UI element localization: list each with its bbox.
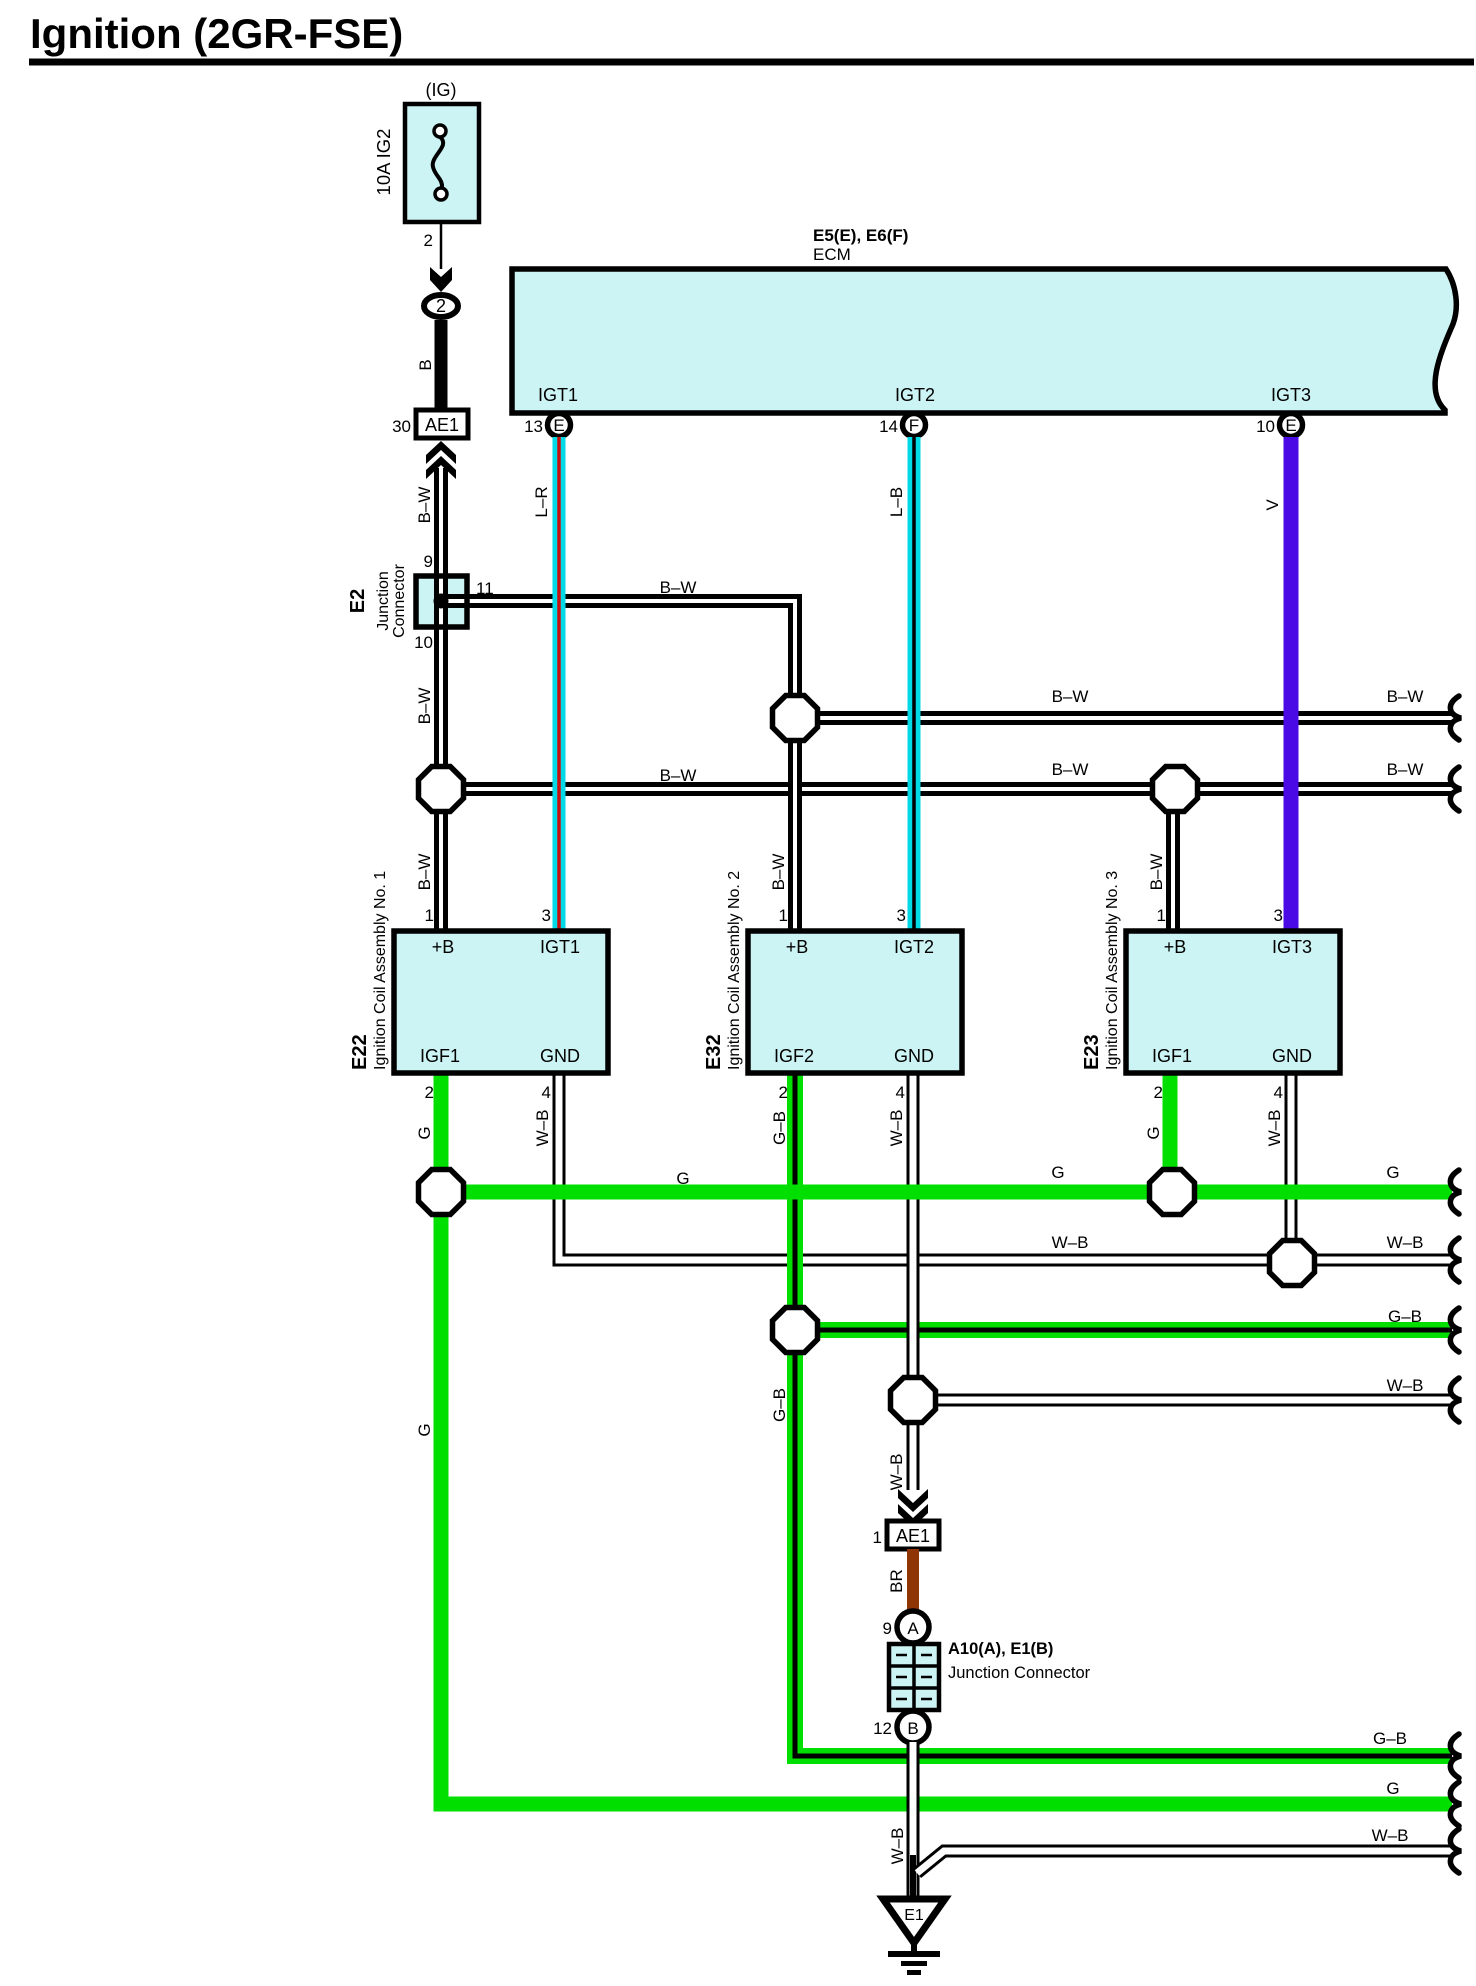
- svg-text:L–R: L–R: [532, 486, 551, 517]
- label W-B: [1387, 1233, 1424, 1252]
- ECM pin label IGT2: [895, 385, 935, 405]
- label B-W: [1147, 854, 1166, 891]
- svg-text:B–W: B–W: [660, 578, 697, 597]
- svg-text:Ignition Coil Assembly No. 1: Ignition Coil Assembly No. 1: [372, 871, 389, 1070]
- wire G horizontal rail y1192: [441, 1185, 1452, 1200]
- pin 1 label: [425, 906, 434, 925]
- junction node octagon (1172,1192): [1150, 1170, 1195, 1215]
- svg-text:G–B: G–B: [770, 1111, 789, 1145]
- label G-B: [770, 1388, 789, 1422]
- label B-W: [415, 487, 434, 524]
- wire B-W from E2 pin 11 right then down to octagon: [465, 601, 795, 700]
- svg-text:GND: GND: [540, 1046, 580, 1066]
- wire end hook: [1450, 1734, 1461, 1778]
- wire W-B from B to ground E1: [907, 1742, 920, 1900]
- svg-text:E2: E2: [347, 589, 369, 613]
- wire B-W horizontal rail y789: [441, 782, 1452, 796]
- svg-text:3: 3: [897, 906, 906, 925]
- wire from fuse to arrow: [440, 222, 443, 269]
- label B-W: [660, 578, 697, 597]
- wire B-W horizontal rail y718: [795, 711, 1452, 725]
- title underline rule: [29, 59, 1474, 66]
- svg-text:11: 11: [476, 579, 494, 598]
- svg-text:10A IG2: 10A IG2: [373, 129, 394, 196]
- svg-text:W–B: W–B: [1387, 1233, 1424, 1252]
- ECM pin 14 (F): [903, 414, 926, 437]
- junction connector E2 box: [416, 576, 467, 627]
- svg-text:+B: +B: [1164, 937, 1187, 957]
- label G: [1051, 1163, 1064, 1182]
- svg-text:L–B: L–B: [887, 487, 906, 517]
- ignition coil assembly E23: [1126, 931, 1340, 1073]
- label Ignition Coil Assembly: [372, 871, 389, 1070]
- svg-text:Ignition (2GR-FSE): Ignition (2GR-FSE): [30, 10, 403, 57]
- wire end hook: [1450, 1238, 1461, 1282]
- svg-text:12: 12: [873, 1719, 892, 1738]
- svg-text:IGT3: IGT3: [1271, 385, 1311, 405]
- pin 4 label: [896, 1083, 905, 1102]
- svg-text:A10(A), E1(B): A10(A), E1(B): [948, 1640, 1053, 1658]
- svg-text:B–W: B–W: [1147, 854, 1166, 891]
- label W-B: [1372, 1826, 1409, 1845]
- wire L-R from ECM IGT1 to coil1: [553, 437, 566, 934]
- svg-text:3: 3: [1274, 906, 1283, 925]
- svg-text:4: 4: [896, 1083, 905, 1102]
- junction node octagon (795,718): [773, 696, 818, 741]
- svg-text:Ignition Coil Assembly No. 3: Ignition Coil Assembly No. 3: [1104, 871, 1121, 1070]
- svg-text:AE1: AE1: [425, 415, 459, 435]
- pin 9 label: [883, 1619, 892, 1638]
- pin 1 label: [873, 1528, 882, 1547]
- label G-B: [1373, 1729, 1407, 1748]
- label G: [415, 1126, 434, 1139]
- svg-text:E23: E23: [1081, 1034, 1103, 1070]
- svg-text:B–W: B–W: [769, 854, 788, 891]
- label B-W: [415, 688, 434, 725]
- wire end hook: [1450, 1829, 1461, 1873]
- svg-text:W–B: W–B: [887, 1454, 906, 1491]
- pin 4 label: [1274, 1083, 1283, 1102]
- fuse 10A IG2: [405, 104, 479, 222]
- pin 10 label: [414, 633, 433, 652]
- ECM pin 13 (E): [548, 414, 571, 437]
- label BR: [887, 1569, 906, 1593]
- wire B-W octagon y789 down to coil3 +B: [1166, 789, 1180, 934]
- label E23: [1081, 1034, 1103, 1070]
- pin 30 label: [392, 417, 411, 436]
- junction node octagon (913,1400): [891, 1378, 936, 1423]
- label L-R: [532, 486, 551, 517]
- svg-text:(IG): (IG): [426, 80, 457, 100]
- label B-W: [769, 854, 788, 891]
- fuse label 10A IG2: [373, 129, 394, 196]
- label G: [415, 1423, 434, 1436]
- junction connector A10(A), E1(B) grid: [889, 1644, 939, 1710]
- svg-text:F: F: [909, 416, 919, 435]
- pin 2 label: [1154, 1083, 1163, 1102]
- svg-text:BR: BR: [887, 1569, 906, 1593]
- chevron arrow into AE1: [426, 441, 456, 479]
- label W-B: [1387, 1376, 1424, 1395]
- svg-text:10: 10: [1256, 417, 1275, 436]
- svg-text:V: V: [1263, 499, 1282, 511]
- ECM label E5(E), E6(F): [813, 226, 908, 245]
- svg-text:14: 14: [879, 417, 898, 436]
- svg-text:G–B: G–B: [1373, 1729, 1407, 1748]
- svg-text:+B: +B: [432, 937, 455, 957]
- svg-text:IGF1: IGF1: [420, 1046, 460, 1066]
- svg-text:E22: E22: [349, 1034, 371, 1070]
- svg-text:IGT3: IGT3: [1272, 937, 1312, 957]
- svg-text:B–W: B–W: [415, 854, 434, 891]
- label W-B: [533, 1110, 552, 1147]
- pin 1 label: [779, 906, 788, 925]
- pin 4 label: [542, 1083, 551, 1102]
- chevron arrow into AE1 bottom: [898, 1489, 928, 1527]
- wire BR: [907, 1549, 919, 1612]
- wire B-W octagon to coil1 +B: [434, 789, 448, 934]
- svg-text:2: 2: [425, 1083, 434, 1102]
- svg-text:+B: +B: [786, 937, 809, 957]
- svg-text:G: G: [1144, 1126, 1163, 1139]
- svg-text:G: G: [676, 1169, 689, 1188]
- ECM label ECM: [813, 245, 851, 264]
- ECM pin label IGT3: [1271, 385, 1311, 405]
- connector oval 2: [424, 295, 458, 317]
- svg-text:10: 10: [414, 633, 433, 652]
- label Ignition Coil Assembly: [726, 871, 743, 1070]
- label E2: [347, 589, 369, 613]
- svg-text:IGF1: IGF1: [1152, 1046, 1192, 1066]
- svg-text:Ignition Coil Assembly No. 2: Ignition Coil Assembly No. 2: [726, 871, 743, 1070]
- label B: [416, 359, 435, 370]
- svg-text:G: G: [1386, 1163, 1399, 1182]
- label G: [1386, 1163, 1399, 1182]
- svg-text:9: 9: [883, 1619, 892, 1638]
- junction node octagon (1175,789): [1153, 767, 1198, 812]
- svg-text:W–B: W–B: [1387, 1376, 1424, 1395]
- wire L-B from ECM IGT2 to coil2: [908, 437, 921, 934]
- svg-text:13: 13: [524, 417, 543, 436]
- wire G from coil3 IGF1 to octagon: [1163, 1071, 1178, 1192]
- connector circle B (pin 12): [897, 1711, 929, 1743]
- svg-text:W–B: W–B: [1265, 1110, 1284, 1147]
- label B-W: [415, 854, 434, 891]
- svg-text:B–W: B–W: [660, 766, 697, 785]
- pin 9 label: [424, 552, 433, 571]
- svg-text:2: 2: [436, 296, 446, 316]
- fuse pin 2 label: [424, 231, 433, 250]
- svg-text:1: 1: [425, 906, 434, 925]
- label G-B: [770, 1111, 789, 1145]
- svg-text:AE1: AE1: [896, 1526, 930, 1546]
- svg-text:B–W: B–W: [415, 688, 434, 725]
- label G: [676, 1169, 689, 1188]
- pin number 10: [1256, 417, 1275, 436]
- pin 1 label: [1157, 906, 1166, 925]
- wire end hook: [1450, 767, 1461, 811]
- label A10(A), E1(B): [948, 1640, 1053, 1658]
- svg-text:3: 3: [542, 906, 551, 925]
- svg-text:4: 4: [542, 1083, 551, 1102]
- svg-text:1: 1: [1157, 906, 1166, 925]
- wire W-B horizontal rail y1400: [913, 1394, 1452, 1407]
- svg-text:A: A: [907, 1619, 919, 1638]
- wire G-B horizontal rail y1330: [795, 1322, 1452, 1338]
- pin 2 label: [425, 1083, 434, 1102]
- svg-text:E1: E1: [904, 1907, 924, 1924]
- wire W-B from coil3 GND down to octagon: [1285, 1071, 1298, 1263]
- junction node octagon (795,1330): [773, 1308, 818, 1353]
- svg-text:G: G: [1051, 1163, 1064, 1182]
- svg-text:B: B: [416, 359, 435, 370]
- svg-text:E5(E), E6(F): E5(E), E6(F): [813, 226, 908, 245]
- svg-text:W–B: W–B: [1372, 1826, 1409, 1845]
- junction node octagon (441,789): [419, 767, 464, 812]
- label Ignition Coil Assembly: [1104, 871, 1121, 1070]
- wire B-W octagon y718 down to coil2 +B: [788, 736, 802, 934]
- label E32: [703, 1034, 725, 1070]
- pin 3 label: [1274, 906, 1283, 925]
- wire G-B from coil2 IGF2 down, elbow right y1754: [795, 1071, 1452, 1756]
- label B-W: [1052, 687, 1089, 706]
- connector AE1 (pin 1): [887, 1521, 939, 1549]
- svg-text:W–B: W–B: [887, 1110, 906, 1147]
- label V: [1263, 499, 1282, 511]
- label G-B: [1388, 1307, 1422, 1326]
- svg-text:Junction: Junction: [375, 571, 392, 631]
- ignition coil assembly E22: [394, 931, 608, 1073]
- wire end hook: [1450, 1782, 1461, 1826]
- ground stem and hatch: [888, 1943, 940, 1973]
- label W-B: [887, 1110, 906, 1147]
- connector circle A (pin 9): [897, 1611, 929, 1643]
- svg-text:G–B: G–B: [770, 1388, 789, 1422]
- label B-W: [1387, 760, 1424, 779]
- label Junction Connector: [948, 1664, 1091, 1682]
- wire W-B from coil1 GND down and right: [559, 1071, 1452, 1260]
- svg-text:G: G: [415, 1126, 434, 1139]
- wire B-W from AE1 chevrons to E2 and through to octagon: [434, 468, 448, 789]
- svg-text:IGT1: IGT1: [538, 385, 578, 405]
- wire end hook: [1450, 1378, 1461, 1422]
- svg-text:E32: E32: [703, 1034, 725, 1070]
- wire W-B from coil2 GND down to AE1 arrow: [907, 1071, 920, 1490]
- label W-B: [887, 1454, 906, 1491]
- svg-text:IGF2: IGF2: [774, 1046, 814, 1066]
- svg-text:B: B: [907, 1719, 918, 1738]
- svg-text:2: 2: [424, 231, 433, 250]
- svg-text:G–B: G–B: [1388, 1307, 1422, 1326]
- label B-W: [1052, 760, 1089, 779]
- wire end hook: [1450, 1170, 1461, 1214]
- ground E1 triangle: [883, 1899, 945, 1943]
- title: Ignition (2GR-FSE): [30, 10, 403, 57]
- svg-text:B–W: B–W: [1052, 760, 1089, 779]
- svg-text:4: 4: [1274, 1083, 1283, 1102]
- svg-text:W–B: W–B: [888, 1828, 907, 1865]
- pin number 14: [879, 417, 898, 436]
- svg-text:1: 1: [873, 1528, 882, 1547]
- pin 3 label: [542, 906, 551, 925]
- label G: [1386, 1779, 1399, 1798]
- wire G from coil1 IGF1 to octagon: [434, 1071, 449, 1192]
- label B-W: [660, 766, 697, 785]
- connector AE1 (pin 30): [416, 410, 468, 438]
- svg-text:B–W: B–W: [1387, 760, 1424, 779]
- svg-text:Junction Connector: Junction Connector: [948, 1664, 1091, 1682]
- svg-text:IGT2: IGT2: [895, 385, 935, 405]
- wire V from ECM IGT3 to coil3: [1284, 437, 1299, 934]
- svg-text:B–W: B–W: [1052, 687, 1089, 706]
- wire end hook: [1450, 1308, 1461, 1352]
- junction node octagon (441,1192): [419, 1170, 464, 1215]
- wire G long vertical, elbow right y1804: [441, 1192, 1452, 1804]
- svg-text:Connector: Connector: [391, 563, 408, 637]
- svg-text:2: 2: [1154, 1083, 1163, 1102]
- pin 12 label: [873, 1719, 892, 1738]
- wire W-B diagonal branch to rail y1851: [917, 1851, 1452, 1873]
- ECM pin 10 (E): [1280, 414, 1303, 437]
- ECM box E5(E), E6(F): [512, 269, 1456, 413]
- label W-B: [1052, 1233, 1089, 1252]
- label L-B: [887, 487, 906, 517]
- label B-W: [1387, 687, 1424, 706]
- svg-text:E: E: [553, 416, 564, 435]
- junction node octagon (1292,1263): [1270, 1241, 1315, 1286]
- svg-text:G: G: [415, 1423, 434, 1436]
- pin 3 label: [897, 906, 906, 925]
- svg-text:1: 1: [779, 906, 788, 925]
- svg-text:ECM: ECM: [813, 245, 851, 264]
- pin 11 label: [476, 579, 494, 598]
- svg-text:IGT1: IGT1: [540, 937, 580, 957]
- svg-text:B–W: B–W: [415, 487, 434, 524]
- svg-text:30: 30: [392, 417, 411, 436]
- svg-text:GND: GND: [894, 1046, 934, 1066]
- label E22: [349, 1034, 371, 1070]
- svg-text:2: 2: [779, 1083, 788, 1102]
- svg-text:G: G: [1386, 1779, 1399, 1798]
- svg-text:IGT2: IGT2: [894, 937, 934, 957]
- pin 2 label: [779, 1083, 788, 1102]
- svg-text:W–B: W–B: [1052, 1233, 1089, 1252]
- label W-B: [1265, 1110, 1284, 1147]
- svg-text:W–B: W–B: [533, 1110, 552, 1147]
- fuse label (IG): [426, 80, 457, 100]
- pin number 13: [524, 417, 543, 436]
- wire B (black): [435, 320, 448, 411]
- svg-text:B–W: B–W: [1387, 687, 1424, 706]
- svg-text:GND: GND: [1272, 1046, 1312, 1066]
- label G: [1144, 1126, 1163, 1139]
- wire end hook: [1450, 696, 1461, 740]
- ECM pin label IGT1: [538, 385, 578, 405]
- arrow into connector 2: [430, 267, 452, 292]
- svg-text:E: E: [1285, 416, 1296, 435]
- label Junction Connector: [375, 563, 408, 637]
- ignition coil assembly E32: [748, 931, 962, 1073]
- label W-B: [888, 1828, 907, 1865]
- svg-text:9: 9: [424, 552, 433, 571]
